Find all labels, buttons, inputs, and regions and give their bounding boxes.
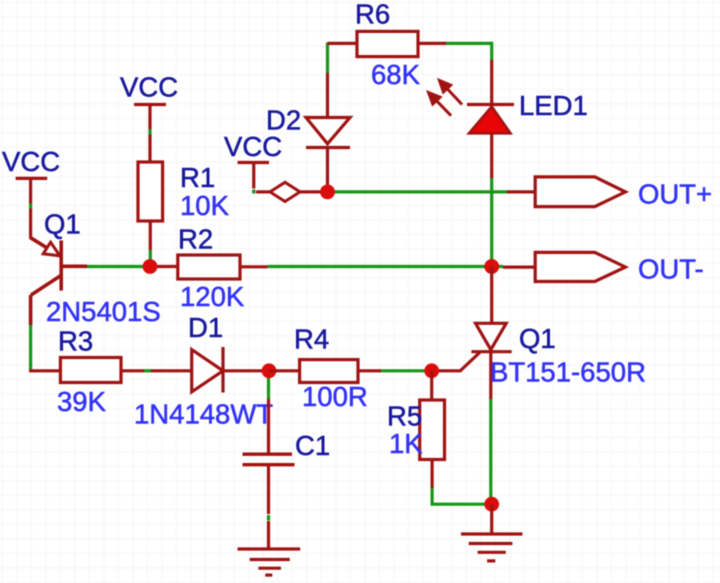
wire: R3-D1 green speck bbox=[143, 369, 152, 372]
svg-text:LED1: LED1 bbox=[519, 90, 588, 121]
wire Q1 collector to R3 red bbox=[29, 369, 60, 372]
svg-text:R3: R3 bbox=[58, 326, 93, 357]
ground (under C1) bbox=[238, 549, 301, 575]
svg-text:Q1: Q1 bbox=[519, 323, 556, 354]
svg-text:BT151-650R: BT151-650R bbox=[490, 357, 646, 388]
svg-text:1K: 1K bbox=[389, 428, 423, 459]
wire: R5 bottom corner green bbox=[432, 487, 492, 504]
wire: VCC1 green speck bbox=[29, 204, 32, 209]
wire: LED column green to OUT- dot bbox=[490, 177, 493, 267]
LED1 emission arrows bbox=[429, 81, 462, 116]
svg-text:R4: R4 bbox=[294, 324, 329, 355]
power flag VCC (D2 / diamond) bbox=[238, 163, 272, 192]
svg-text:120K: 120K bbox=[180, 281, 245, 312]
wire OUT+ red stub bbox=[507, 190, 535, 193]
resistor R2 bbox=[150, 265, 178, 268]
svg-text:OUT-: OUT- bbox=[638, 253, 704, 284]
resistor R3 bbox=[60, 358, 121, 383]
svg-text:1N4148WT: 1N4148WT bbox=[134, 399, 273, 430]
wire: OUT+ row green bbox=[328, 190, 509, 193]
svg-text:39K: 39K bbox=[57, 386, 107, 417]
resistor R4 bbox=[269, 369, 300, 372]
svg-text:R1: R1 bbox=[180, 162, 215, 193]
resistor R6 bbox=[328, 42, 358, 45]
junction dot (D1/R4/C1 node) bbox=[262, 363, 277, 378]
svg-text:2N5401S: 2N5401S bbox=[46, 296, 161, 327]
svg-text:10K: 10K bbox=[180, 190, 230, 221]
transistor Q1 2N5401S bbox=[30, 237, 87, 325]
port flag OUT- bbox=[535, 252, 625, 281]
svg-text:VCC: VCC bbox=[2, 146, 60, 177]
junction dot (R1/R2/Q1 base node) bbox=[143, 259, 158, 274]
wire R6 to D2 red segments bbox=[326, 73, 329, 118]
wire: C1 top green bbox=[267, 371, 270, 399]
wire: thyristor cathode green bbox=[489, 398, 492, 504]
wire: Q1 base row green bbox=[86, 265, 150, 268]
thyristor gate wire bbox=[436, 353, 480, 371]
svg-text:C1: C1 bbox=[295, 430, 330, 461]
wire: Q1 collector green bbox=[29, 325, 32, 371]
svg-text:R5: R5 bbox=[387, 401, 422, 432]
svg-text:OUT+: OUT+ bbox=[638, 179, 712, 210]
svg-text:VCC: VCC bbox=[120, 72, 178, 103]
svg-text:R6: R6 bbox=[355, 0, 390, 30]
svg-text:68K: 68K bbox=[371, 59, 421, 90]
port flag OUT+ bbox=[535, 177, 625, 207]
wire: OUT- dot to flag green speck bbox=[492, 265, 503, 268]
wire: VCC3 corner green speck bbox=[252, 190, 255, 194]
wire: R6 left column green segment bbox=[326, 43, 329, 74]
wire: R6 right green bbox=[445, 42, 492, 45]
thyristor Q1 BT151-650R bbox=[490, 267, 493, 324]
svg-text:100R: 100R bbox=[302, 381, 368, 412]
ground (right, thyristor cathode) bbox=[461, 504, 523, 561]
junction dot (gate/R5 node) bbox=[424, 363, 439, 378]
wire diamond to OUT+ node bbox=[300, 190, 322, 193]
diode D1 bbox=[192, 350, 223, 392]
diode D2 bbox=[306, 118, 350, 144]
wire: LED column green upper bbox=[490, 42, 493, 60]
power flag VCC (R1 top) bbox=[134, 105, 166, 163]
svg-text:D1: D1 bbox=[188, 312, 223, 343]
resistor R1 bbox=[138, 162, 163, 221]
svg-text:VCC: VCC bbox=[224, 131, 282, 162]
wire: OUT- row green R2 to dot bbox=[268, 265, 492, 268]
wire: VCC2 green speck bbox=[148, 129, 151, 135]
junction dot (OUT+ node) bbox=[320, 185, 335, 200]
wire: R1 bottom green segment bbox=[149, 250, 152, 267]
wire: C1 lower green speck bbox=[267, 515, 270, 521]
wire: R4 right green bbox=[381, 369, 432, 372]
junction dot (ground node) bbox=[484, 497, 499, 512]
diamond net flag bbox=[270, 182, 300, 201]
LED1 bbox=[467, 103, 514, 106]
svg-text:Q1: Q1 bbox=[44, 209, 81, 240]
wire R6 right corner red bbox=[490, 60, 493, 105]
junction dot (OUT- node) bbox=[484, 259, 499, 274]
capacitor C1 bbox=[267, 399, 270, 454]
transistor Q1 emitter arrowhead bbox=[43, 242, 60, 256]
power flag VCC (left, Q1 emitter) bbox=[16, 178, 48, 237]
svg-text:R2: R2 bbox=[178, 224, 213, 255]
resistor R5 bbox=[430, 371, 433, 400]
wire OUT- red stub bbox=[503, 266, 535, 269]
